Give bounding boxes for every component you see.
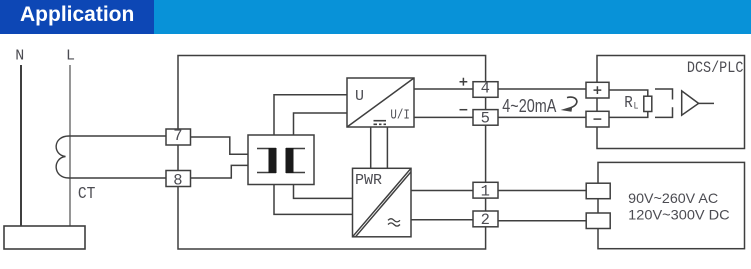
RL value label xyxy=(624,93,638,112)
svg-text:4: 4 xyxy=(481,80,490,98)
wire amplifier output xyxy=(699,102,714,104)
svg-text:L: L xyxy=(634,100,639,112)
svg-text:U/I: U/I xyxy=(390,108,410,124)
svg-text:120V~300V DC: 120V~300V DC xyxy=(628,207,730,223)
op-amp U/I converter block xyxy=(347,78,414,127)
DCS/PLC box xyxy=(597,56,745,149)
CT label xyxy=(78,185,96,204)
wire terminal7 to transformer xyxy=(191,137,249,154)
svg-text:U: U xyxy=(355,88,364,105)
svg-text:PWR: PWR xyxy=(355,172,382,189)
node N label xyxy=(15,47,24,64)
terminal 2 xyxy=(473,211,498,229)
wire terminal 1 to supply box xyxy=(498,190,586,192)
DCS/PLC label xyxy=(687,59,744,77)
svg-text:90V~260V AC: 90V~260V AC xyxy=(628,190,718,206)
title bar light segment xyxy=(154,0,751,34)
transmitter enclosure box xyxy=(178,56,486,250)
wire PWR to terminal 1 xyxy=(411,190,473,192)
wire transformer top-left to U/I input xyxy=(274,95,347,135)
DCS minus terminal xyxy=(586,111,609,127)
current direction arrow xyxy=(567,97,577,108)
wire U/I to PWR left vertical xyxy=(370,127,372,168)
op-amp input amplifier triangle xyxy=(682,91,699,115)
svg-text:1: 1 xyxy=(481,182,490,200)
supply rating line 2 xyxy=(628,207,730,223)
wire L supply line xyxy=(69,65,71,226)
DCS plus terminal xyxy=(586,82,609,98)
svg-text:7: 7 xyxy=(173,127,182,145)
svg-text:4~20mA: 4~20mA xyxy=(502,96,556,116)
wire U/I to terminal 4 xyxy=(414,88,473,90)
connector bracket upper stub xyxy=(655,89,673,100)
supply connector upper xyxy=(586,183,610,199)
wire terminal8 to transformer xyxy=(191,165,249,178)
minus sign at terminal 5 xyxy=(460,109,468,111)
load box xyxy=(4,226,85,249)
terminal 4 xyxy=(473,80,498,98)
svg-text:5: 5 xyxy=(481,109,490,127)
wire U/I to PWR right vertical xyxy=(386,127,388,168)
power supply PWR block xyxy=(353,168,412,237)
title text xyxy=(20,3,134,27)
svg-text:CT: CT xyxy=(78,185,96,204)
svg-text:N: N xyxy=(15,47,24,64)
node L label xyxy=(66,47,75,64)
wire U/I to terminal 5 xyxy=(414,116,473,118)
title bar dark segment xyxy=(0,0,154,34)
wire N supply line xyxy=(20,65,22,226)
current transformer CT coil xyxy=(56,136,166,178)
wire transformer bottom-right to PWR xyxy=(294,185,353,199)
wire terminal 5 to DCS minus xyxy=(498,116,586,118)
supply rating line 1 xyxy=(628,190,718,206)
resistor RL xyxy=(644,96,652,111)
transformer T1 xyxy=(248,135,314,185)
supply connector lower xyxy=(586,213,610,229)
4~20mA label xyxy=(502,96,556,116)
svg-text:L: L xyxy=(66,47,75,64)
terminal 7 xyxy=(166,127,191,145)
terminal 8 xyxy=(166,171,191,190)
wire transformer bottom-left to PWR xyxy=(274,185,353,215)
svg-text:8: 8 xyxy=(173,171,182,189)
wire PWR to terminal 2 xyxy=(411,219,473,221)
wire DCS plus to load resistor xyxy=(609,90,648,96)
wire terminal 4 to DCS plus xyxy=(498,88,586,90)
terminal 5 xyxy=(473,109,498,127)
power supply box xyxy=(598,162,745,248)
terminal 1 xyxy=(473,182,498,200)
svg-text:DCS/PLC: DCS/PLC xyxy=(687,59,744,77)
wire transformer top-right to U/I input xyxy=(294,113,348,135)
svg-text:2: 2 xyxy=(481,211,490,229)
connector bracket lower stub xyxy=(655,107,673,117)
svg-text:R: R xyxy=(624,93,633,112)
wire DCS minus to load resistor xyxy=(609,112,648,118)
wire terminal 2 to supply box xyxy=(498,220,586,222)
plus sign at terminal 4 xyxy=(460,78,468,86)
